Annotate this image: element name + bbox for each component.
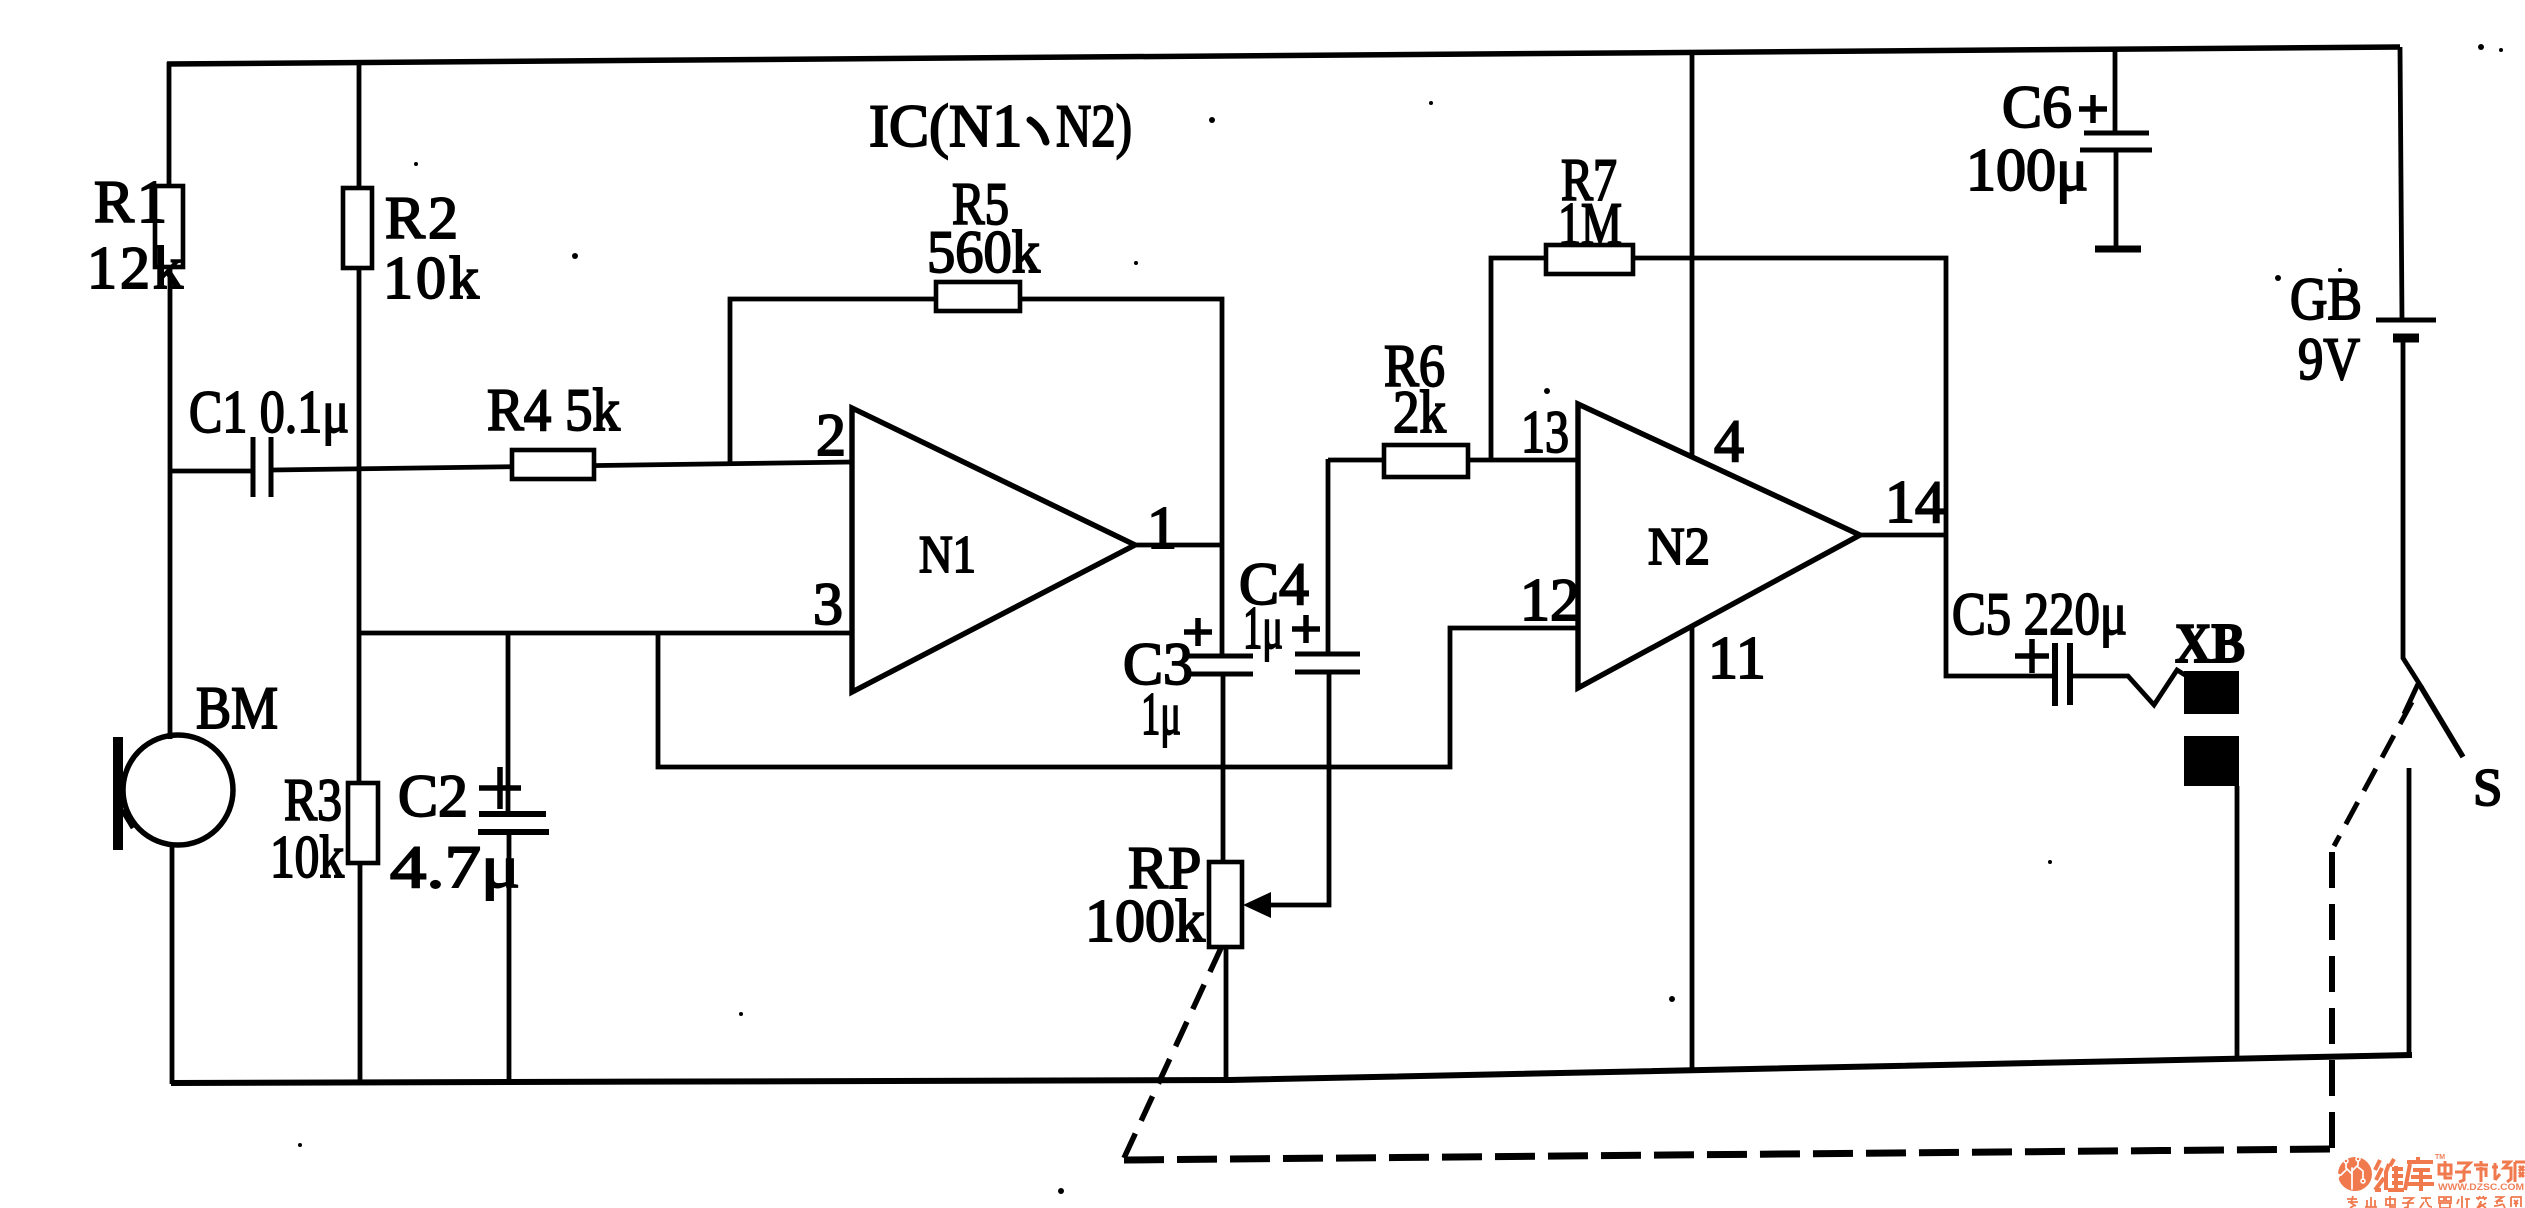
svg-text:3: 3 [813, 571, 843, 637]
svg-text:1μ: 1μ [1141, 681, 1181, 747]
svg-text:R1: R1 [94, 169, 170, 235]
svg-text:14: 14 [1885, 469, 1945, 535]
svg-text:2k: 2k [1393, 379, 1446, 445]
svg-text:10k: 10k [270, 824, 344, 890]
svg-text:C2: C2 [398, 763, 468, 829]
svg-text:TM: TM [2435, 1154, 2445, 1161]
svg-text:R4 5k: R4 5k [487, 377, 620, 443]
svg-text:C1 0.1μ: C1 0.1μ [189, 379, 349, 445]
svg-text:N2): N2) [1056, 93, 1132, 159]
svg-text:1μ: 1μ [1243, 595, 1283, 661]
svg-text:1: 1 [1147, 495, 1177, 561]
svg-text:12: 12 [1520, 567, 1580, 633]
svg-text:100k: 100k [1085, 888, 1205, 954]
svg-text:N1: N1 [919, 526, 976, 584]
svg-text:GB: GB [2290, 266, 2362, 332]
svg-text:C6: C6 [2002, 74, 2072, 140]
svg-text:BM: BM [196, 675, 278, 741]
svg-text:C5 220μ: C5 220μ [1952, 581, 2127, 647]
svg-text:R2: R2 [385, 185, 461, 251]
svg-text:IC(N1: IC(N1 [869, 93, 1022, 159]
svg-text:WWW.DZSC.COM: WWW.DZSC.COM [2438, 1182, 2524, 1192]
svg-text:9V: 9V [2298, 326, 2360, 392]
svg-text:S: S [2473, 759, 2502, 817]
svg-text:N2: N2 [1648, 518, 1710, 576]
svg-text:10k: 10k [383, 245, 482, 311]
svg-text:11: 11 [1708, 625, 1766, 691]
svg-text:100μ: 100μ [1966, 137, 2088, 203]
svg-text:4.7μ: 4.7μ [390, 834, 520, 900]
svg-text:4: 4 [1714, 408, 1744, 474]
svg-text:13: 13 [1521, 399, 1569, 465]
svg-text:12k: 12k [87, 235, 186, 301]
svg-text:2: 2 [816, 402, 846, 468]
svg-text:1M: 1M [1558, 191, 1622, 257]
svg-text:XB: XB [2175, 613, 2245, 675]
svg-text:560k: 560k [927, 219, 1040, 285]
